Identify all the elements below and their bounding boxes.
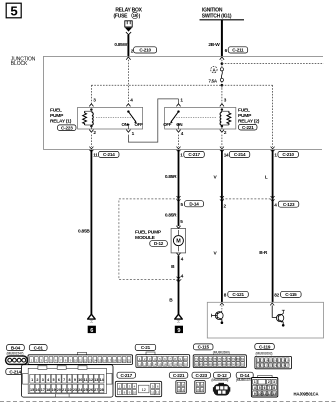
svg-text:C-217: C-217 [120,373,132,378]
connector C-217 pinout [115,381,161,396]
svg-text:PUMP: PUMP [238,113,252,119]
svg-text:(MU802692): (MU802692) [256,351,273,355]
relay 2 coil and resistor (parallel) [220,110,231,128]
svg-text:12: 12 [142,388,146,392]
svg-text:13: 13 [88,359,92,363]
svg-text:PUMP: PUMP [50,113,64,119]
svg-text:88: 88 [223,363,227,367]
svg-text:74: 74 [209,357,213,361]
svg-text:14: 14 [224,153,229,158]
svg-text:16: 16 [35,388,39,392]
relay 2 switch ON/OFF [163,112,216,127]
svg-text:D-12: D-12 [154,241,164,246]
svg-text:20: 20 [122,359,126,363]
svg-text:C-214: C-214 [234,152,246,157]
part number above C-115 pinout [213,350,230,354]
svg-text:12: 12 [83,359,87,363]
svg-text:21: 21 [62,388,66,392]
svg-text:19: 19 [118,359,122,363]
svg-text:1: 1 [180,98,183,103]
connector D-14 pinout [251,375,277,397]
svg-text:15: 15 [30,388,34,392]
wire 0.85R relay 2 to fuel pump module [178,150,180,226]
wire label B-R [259,250,268,256]
connector C-01 pinout [28,352,133,364]
svg-text:17: 17 [41,388,45,392]
wire (dashed) relay 1 pin 2 to bottom edge [90,135,92,147]
connector C-210 pin 1 (bottom exit) [271,147,299,158]
junction block boundary [44,56,324,149]
svg-text:7.5A: 7.5A [209,78,218,83]
svg-text:0.85R: 0.85R [165,212,177,218]
wire (dashed) fuse 19 feed down to relay 1 pin 4 [127,60,129,104]
svg-text:3: 3 [273,380,275,384]
svg-text:(MU801374): (MU801374) [236,378,253,382]
svg-text:FUEL PUMP: FUEL PUMP [135,229,162,235]
svg-text:91: 91 [236,363,240,367]
page number tag 5 [6,3,21,18]
relay 1 pin 2 [89,126,96,135]
svg-text:1: 1 [31,378,33,382]
svg-text:10: 10 [74,359,78,363]
wire 2B-W from ignition switch [221,20,223,57]
relay U2 FUEL PUMP RELAY (2) outline [165,107,236,129]
svg-text:14: 14 [153,362,157,366]
svg-text:RELAY (2): RELAY (2) [238,119,260,125]
svg-text:81: 81 [241,357,245,361]
svg-text:C-123: C-123 [283,202,295,207]
wire (dashed) bus down to C-210 exit [272,85,274,147]
svg-text:12: 12 [268,392,272,396]
svg-text:17: 17 [168,362,172,366]
svg-text:78: 78 [227,357,231,361]
svg-text:V: V [214,251,218,257]
connector label D-12 [214,372,231,378]
connector B-04 pinout [6,356,28,364]
wire (dashed) fuse A to bus [221,82,223,89]
svg-text:22: 22 [67,388,71,392]
svg-text:A: A [212,68,216,73]
part number under D-12 [211,378,228,382]
svg-text:12: 12 [143,362,147,366]
ignition switch (IG1) [200,8,245,20]
svg-text:9: 9 [74,378,76,382]
svg-text:19: 19 [179,362,183,366]
svg-text:71: 71 [195,357,199,361]
wire 0.85W from fuse 19 down to junction block [127,35,129,57]
svg-text:C-217: C-217 [188,152,200,157]
svg-text:84: 84 [204,363,208,367]
module boundary exit pin 4 [177,274,184,283]
svg-text:82: 82 [274,293,279,298]
fuel pump module dashed boundary [119,199,182,280]
svg-text:6: 6 [58,378,60,382]
connector label C-119 [255,344,274,350]
svg-text:OFF: OFF [135,122,144,127]
svg-text:C-115: C-115 [198,345,210,350]
svg-text:89: 89 [227,363,231,367]
svg-text:75: 75 [213,357,217,361]
svg-text:2: 2 [93,130,96,135]
relay 2 pin 4 [176,125,183,137]
wire (dashed) branch to right edge [222,63,324,65]
wire (dashed) coil supply bus [91,84,272,86]
connector C-123 pin 4 [271,196,299,208]
fuel pump module label [135,229,162,241]
svg-text:1: 1 [274,153,277,158]
svg-text:4: 4 [181,257,184,262]
wire (dashed) bus down to relay 1 pin 3 [90,85,92,103]
svg-text:13: 13 [272,392,276,396]
svg-text:5: 5 [181,202,184,207]
svg-text:B: B [171,264,175,270]
svg-text:9: 9 [254,392,256,396]
diagram code [294,391,319,396]
wire label B (upper) [171,264,175,270]
connector C-123 link (dashed) [222,198,273,200]
wire (dashed) relay 2 pin 2 to bottom edge [221,135,223,147]
svg-text:C-223: C-223 [195,373,207,378]
node: bus junction below fuse A [221,84,224,87]
connector C-115 pinout [193,355,246,368]
svg-text:C-21: C-21 [141,345,151,350]
connector label C-115 [194,344,214,350]
relay 1 pin 3 [89,98,96,111]
connector symbol below fuse 19 [125,28,132,35]
svg-text:27: 27 [94,388,98,392]
connector C-221 pinout [176,381,186,394]
svg-text:5: 5 [10,3,17,18]
connector C-121 pin 8 (ECU entry) [224,291,249,297]
ground 9 [175,314,183,334]
svg-text:20: 20 [57,388,61,392]
relay 1 coil and resistor (parallel) [83,110,94,128]
svg-text:11: 11 [138,362,141,366]
svg-text:BLOCK: BLOCK [11,61,28,67]
connector D-14 pin 5 (module boundary) [177,196,204,207]
svg-text:1: 1 [180,153,183,158]
svg-text:5: 5 [259,386,261,390]
part number under D-14 [236,378,253,382]
connector label C-221 [239,124,258,130]
wire (dashed) ignition feed inside junction block [221,60,223,68]
connector label B-04 [7,345,25,351]
connector C-123 pin 2 [220,196,227,209]
relay 1 label [50,108,72,125]
wire V relay 2 pin 2 to ECU [221,150,223,302]
connector C-223 pinout [195,381,205,394]
svg-text:C-214: C-214 [103,152,115,157]
wire label 2B-W [208,42,220,48]
svg-text:C-221: C-221 [242,125,254,130]
svg-text:7: 7 [268,386,270,390]
fuse A 7.5A [209,66,224,83]
svg-text:20: 20 [184,362,188,366]
svg-text:11: 11 [93,153,98,158]
svg-text:79: 79 [232,357,236,361]
svg-text:4: 4 [181,274,184,279]
wire label V (upper) [214,174,218,180]
svg-text:C-210: C-210 [139,48,151,53]
wire label B (lower) [169,298,173,304]
svg-text:3: 3 [93,98,96,103]
svg-text:18: 18 [174,362,178,366]
svg-text:B-04: B-04 [11,345,21,350]
svg-text:8: 8 [224,293,227,298]
svg-text:3: 3 [42,378,44,382]
svg-text:2: 2 [268,380,270,384]
svg-text:7: 7 [63,378,65,382]
svg-text:16: 16 [163,362,167,366]
svg-text:2: 2 [224,130,227,135]
relay 2 pin 3 [220,98,227,111]
svg-text:FUEL: FUEL [238,108,250,114]
svg-text:C-121: C-121 [232,292,244,297]
svg-text:25: 25 [84,388,88,392]
connector C-119 pinout [255,356,292,368]
svg-text:B-R: B-R [259,250,268,256]
svg-text:13: 13 [94,378,98,382]
svg-text:6: 6 [264,386,266,390]
svg-text:10: 10 [78,378,82,382]
svg-text:10: 10 [133,391,137,395]
svg-text:14: 14 [93,359,97,363]
svg-text:B: B [169,298,173,304]
svg-text:11: 11 [84,378,88,382]
svg-text:23: 23 [73,388,77,392]
svg-text:76: 76 [218,357,222,361]
connector label C-223 [192,372,211,378]
svg-text:90: 90 [232,363,236,367]
svg-text:2: 2 [36,378,38,382]
svg-text:C-211: C-211 [232,48,244,53]
wire label 0.85W [114,42,127,48]
svg-text:15: 15 [98,359,102,363]
svg-text:12: 12 [156,391,160,395]
connector label C-221 [169,372,188,378]
svg-text:(MU802690): (MU802690) [213,350,230,354]
relay 2 pin 1 [176,98,183,113]
connector C-214 pin 11 (bottom exit) [89,147,119,158]
svg-text:IGNITION: IGNITION [202,8,223,14]
connector C-211 pin 6 (top entry) [220,47,248,60]
wire label 0.85R (upper) [165,174,177,180]
svg-text:C-210: C-210 [282,152,294,157]
svg-text:HAJ09B01CA: HAJ09B01CA [294,391,319,396]
svg-text:(FUSE: (FUSE [114,13,129,19]
connector label D-14 [236,372,253,378]
relay U1 FUEL PUMP RELAY (1) outline [78,107,143,129]
svg-text:11: 11 [263,392,267,396]
svg-text:18: 18 [46,388,50,392]
svg-text:(MU801547): (MU801547) [7,352,24,356]
connector label C-01 [29,345,47,351]
svg-text:80: 80 [236,357,240,361]
relay 2 label [238,108,260,125]
wire label 0.85B [78,229,90,235]
svg-text:OFF: OFF [163,122,172,127]
svg-text:83: 83 [199,363,203,367]
connector C-214 pin 14 (bottom exit) [220,147,250,158]
relay 1 switch ON/OFF [96,112,143,127]
svg-text:C-119: C-119 [259,344,271,349]
connector C-21 pinout [136,352,190,367]
wire 0.85B to ground 6 [90,150,92,315]
svg-text:(MU802534): (MU802534) [211,378,228,382]
svg-text:16: 16 [103,359,107,363]
svg-text:26: 26 [89,388,93,392]
svg-text:): ) [139,13,141,19]
svg-text:4: 4 [254,386,256,390]
connector C-115 pin 82 (ECU entry) [274,291,301,297]
connector label C-217 [117,372,136,378]
svg-text:2: 2 [224,204,227,209]
svg-text:11: 11 [151,391,154,395]
svg-text:4: 4 [181,131,184,136]
svg-text:5: 5 [180,219,183,224]
svg-text:SWITCH (IG1): SWITCH (IG1) [202,14,232,20]
svg-text:119: 119 [285,359,290,363]
part number under C-119 [256,351,273,355]
fuel pump motor M [171,219,186,262]
svg-text:C-214: C-214 [9,369,21,374]
connector C-210 pin 2 (top entry) [126,47,156,60]
svg-text:FUEL: FUEL [50,108,62,114]
connector label C-21 [135,344,156,350]
wire relay 1 pin 1 to relay 2 pin 1 [128,99,178,142]
svg-text:V: V [214,174,218,180]
svg-text:8: 8 [273,386,275,390]
svg-text:C-221: C-221 [173,373,185,378]
svg-text:C-115: C-115 [285,292,297,297]
svg-text:RELAY (1): RELAY (1) [50,119,72,125]
svg-text:0.85W: 0.85W [114,42,127,48]
svg-text:6: 6 [90,328,93,334]
svg-text:0.85R: 0.85R [165,174,177,180]
wire (dashed) relay 2 pin 4 to bottom edge [178,135,180,147]
svg-text:15: 15 [158,362,162,366]
svg-text:86: 86 [213,363,217,367]
svg-text:28: 28 [100,388,104,392]
connector label C-223 [58,125,77,131]
svg-text:2B-W: 2B-W [208,42,220,48]
svg-text:MODULE: MODULE [135,235,156,241]
svg-text:C-223: C-223 [61,125,73,130]
svg-text:92: 92 [241,363,245,367]
svg-text:73: 73 [204,357,208,361]
relay 1 pin 1 [126,125,134,137]
svg-text:82: 82 [195,363,199,367]
fuse 19 symbol [125,21,132,27]
part number under B-04 [7,352,24,356]
svg-text:ON: ON [122,122,128,127]
wire label 0.85R (lower) [165,212,177,218]
svg-text:5: 5 [52,378,54,382]
svg-text:77: 77 [223,357,227,361]
node: ignition feed branch [221,62,224,65]
relay 1 pin 4 [126,98,133,113]
connector C-217 pin 1 (bottom exit) [177,147,205,158]
svg-text:127: 127 [285,364,290,368]
wire B fuel pump to ground 9 [178,256,180,315]
ground 6 [88,314,96,334]
transistor Q2 [270,303,285,327]
svg-text:4: 4 [274,203,277,208]
svg-text:18: 18 [113,359,117,363]
relay box / fuse 19 label [114,8,143,20]
svg-text:10: 10 [258,392,262,396]
svg-text:L: L [265,174,268,180]
svg-text:21: 21 [127,359,131,363]
svg-text:6: 6 [225,48,228,53]
svg-text:8: 8 [69,378,71,382]
wire label L [265,174,268,180]
svg-text:C-01: C-01 [34,345,44,350]
svg-text:9: 9 [177,328,180,334]
svg-text:10: 10 [184,357,188,361]
svg-text:19: 19 [51,388,55,392]
svg-text:11: 11 [79,359,82,363]
svg-text:87: 87 [218,363,222,367]
wire L / B-R to ECU [272,150,274,302]
transistor Q1 [212,303,224,324]
svg-text:13: 13 [148,362,152,366]
svg-text:D-14: D-14 [189,201,199,206]
svg-text:1: 1 [132,131,135,136]
svg-text:17: 17 [108,359,112,363]
svg-text:3: 3 [224,98,227,103]
wire (dashed) bus down to relay 2 pin 3 [221,85,223,103]
connector C-214 pinout [22,365,114,397]
svg-text:0.85B: 0.85B [78,229,90,235]
svg-text:1: 1 [254,380,256,384]
engine ECU box [207,302,323,338]
svg-text:72: 72 [199,357,203,361]
connector label D-12 [150,241,168,247]
junction block label [11,56,36,67]
svg-text:M: M [176,239,181,245]
connector label C-214 [6,369,25,375]
relay 2 pin 2 [220,126,227,135]
svg-text:12: 12 [89,378,93,382]
connector D-12 pinout [213,383,230,395]
svg-text:4: 4 [130,98,133,103]
svg-text:85: 85 [209,363,213,367]
wire label V (lower) [214,251,218,257]
